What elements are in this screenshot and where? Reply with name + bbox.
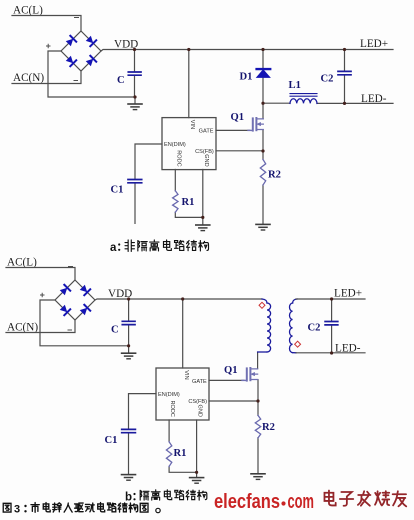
bridge diamond outline <box>61 31 101 71</box>
ground (C) <box>128 104 142 110</box>
svg-text:AC(N): AC(N) <box>13 72 44 84</box>
logo text 电子发烧友 <box>324 491 335 506</box>
bridge diode top-left <box>65 36 76 47</box>
svg-text:EN(DIM): EN(DIM) <box>164 142 186 148</box>
transformer polarity dot secondary <box>295 341 301 347</box>
figure caption <box>3 503 11 512</box>
svg-text:VIN: VIN <box>189 120 195 129</box>
junction dots (bottom) <box>127 297 333 474</box>
svg-text:R1: R1 <box>182 197 195 208</box>
wire CS(FB) to Q1 source node <box>216 150 263 152</box>
wire VDD rail <box>101 50 393 52</box>
transistor Q1 (bottom) <box>242 368 258 381</box>
bridge diode top-left (b) <box>59 285 70 296</box>
wire LED- rail <box>263 102 393 104</box>
wire EN(DIM) to C1 (b) <box>129 394 157 429</box>
svg-text:D1: D1 <box>240 72 253 83</box>
svg-text:LED+: LED+ <box>334 288 362 300</box>
wire Q1 source to R2 <box>262 130 264 160</box>
wire AC(N) to bridge bottom (b) <box>6 320 75 333</box>
svg-text:LED+: LED+ <box>360 38 388 50</box>
svg-text:Q1: Q1 <box>231 112 245 123</box>
transformer T1 primary <box>258 299 271 352</box>
svg-text:RODC: RODC <box>169 401 175 417</box>
ground (IC GND/R1 b) <box>190 478 204 484</box>
svg-text:GATE: GATE <box>192 379 207 385</box>
bridge diode bottom-right (b) <box>79 305 90 316</box>
ground (IC GND/R1) <box>196 225 210 231</box>
IC pin labels VIN GATE CS(FB) EN(DIM) RODC GND (bottom) <box>158 370 207 417</box>
svg-text:C2: C2 <box>308 323 321 334</box>
svg-text:R2: R2 <box>268 170 281 181</box>
ground (R2) <box>256 224 270 230</box>
svg-text:GND: GND <box>203 154 209 166</box>
transformer T1 secondary <box>289 299 297 353</box>
svg-text:EN(DIM): EN(DIM) <box>158 392 180 398</box>
ground (C1 b) <box>122 475 136 481</box>
svg-text:C1: C1 <box>105 435 118 446</box>
ground (C b) <box>122 353 136 359</box>
wire R1 pins <box>175 170 203 225</box>
wire C2 branch <box>344 50 346 104</box>
capacitor C wires (b) <box>128 299 130 353</box>
wire CS(FB) to Q1 source node (b) <box>209 400 258 402</box>
inductor L1 <box>290 94 317 104</box>
svg-text:GATE: GATE <box>199 129 214 135</box>
bridge diode bottom-left (b) <box>59 304 70 315</box>
capacitor C1 <box>128 180 142 183</box>
wire LED- rail (b) <box>296 352 365 354</box>
wire transformer primary bottom to Q1 drain <box>257 353 259 369</box>
wire EN(DIM) to C1 <box>135 144 162 179</box>
svg-text:RODC: RODC <box>175 150 181 166</box>
svg-text:b: b <box>125 492 132 504</box>
svg-text:3: 3 <box>14 504 20 516</box>
capacitor C1 lower wire (b) <box>128 434 130 474</box>
wire AC(N) to bridge bottom <box>12 71 81 84</box>
bridge diode top-right (b) <box>79 284 90 295</box>
capacitor C1 lower wire <box>134 184 136 224</box>
wire GATE to Q1 <box>216 129 250 131</box>
capacitor C wires <box>134 50 137 104</box>
capacitor C (b) <box>122 321 135 324</box>
bridge polarity marks (b) <box>41 267 73 331</box>
svg-text:AC(L): AC(L) <box>13 5 43 17</box>
IC controller U1 (bottom) <box>156 368 209 420</box>
capacitor C2 (b) <box>331 299 333 353</box>
svg-text:C2: C2 <box>321 74 334 85</box>
wire bridge left to bottom rail <box>48 51 135 97</box>
svg-text:Q1: Q1 <box>224 365 238 376</box>
svg-text:com: com <box>288 490 315 513</box>
svg-text:R1: R1 <box>174 448 187 459</box>
svg-text:AC(N): AC(N) <box>7 322 38 334</box>
wire Q1 source to R2 (b) <box>257 380 259 416</box>
IC controller U1 (top) <box>162 118 216 170</box>
svg-text:a: a <box>110 242 117 254</box>
wire R2 to ground (b) <box>257 438 259 473</box>
transformer polarity dot primary <box>259 302 265 308</box>
wire AC(L) to bridge top (b) <box>6 268 75 281</box>
wire R1 pins (b) <box>169 420 197 477</box>
wire Q1 drain <box>262 103 264 118</box>
resistor R1 (bottom) <box>166 442 171 467</box>
bridge diode bottom-left <box>65 55 76 66</box>
bridge diode bottom-right <box>85 56 96 67</box>
wire R2 to ground <box>262 185 264 224</box>
svg-text:VIN: VIN <box>183 370 189 379</box>
svg-text:R2: R2 <box>262 422 275 433</box>
transistor Q1 (top) <box>248 118 263 131</box>
diode D1 <box>257 69 271 77</box>
wire bridge left to bottom rail (b) <box>40 300 129 346</box>
resistor R2 (bottom) <box>255 415 260 437</box>
capacitor C <box>128 72 141 75</box>
IC pin labels VIN GATE CS(FB) EN(DIM) RODC GND (top) <box>164 120 214 167</box>
svg-text:elecfans: elecfans <box>214 490 280 513</box>
wire VDD rail (b) <box>95 299 262 300</box>
wire VIN drop <box>188 50 190 118</box>
resistor R1 (top) <box>173 191 178 212</box>
svg-text:L1: L1 <box>289 80 301 91</box>
svg-text:C1: C1 <box>111 185 124 196</box>
resistor R2 (top) <box>260 160 265 186</box>
wire D1 branch <box>262 50 264 104</box>
bridge diode top-right <box>85 35 96 46</box>
wire VIN drop (b) <box>182 299 184 368</box>
wire AC(L) to bridge top <box>12 16 81 32</box>
junction dots (top) <box>133 48 346 219</box>
bridge diamond outline (b) <box>55 280 95 320</box>
capacitor C2 <box>338 71 351 74</box>
svg-text:AC(L): AC(L) <box>7 257 37 269</box>
wire LED+ rail (b) <box>296 298 365 300</box>
svg-text:C: C <box>117 75 125 86</box>
bridge polarity marks <box>47 18 79 81</box>
svg-text:GND: GND <box>197 405 203 417</box>
ground (R2 b) <box>251 474 265 480</box>
svg-text:C: C <box>111 325 119 336</box>
capacitor C1 (b) <box>122 429 136 432</box>
wire GATE to Q1 (b) <box>209 379 244 381</box>
